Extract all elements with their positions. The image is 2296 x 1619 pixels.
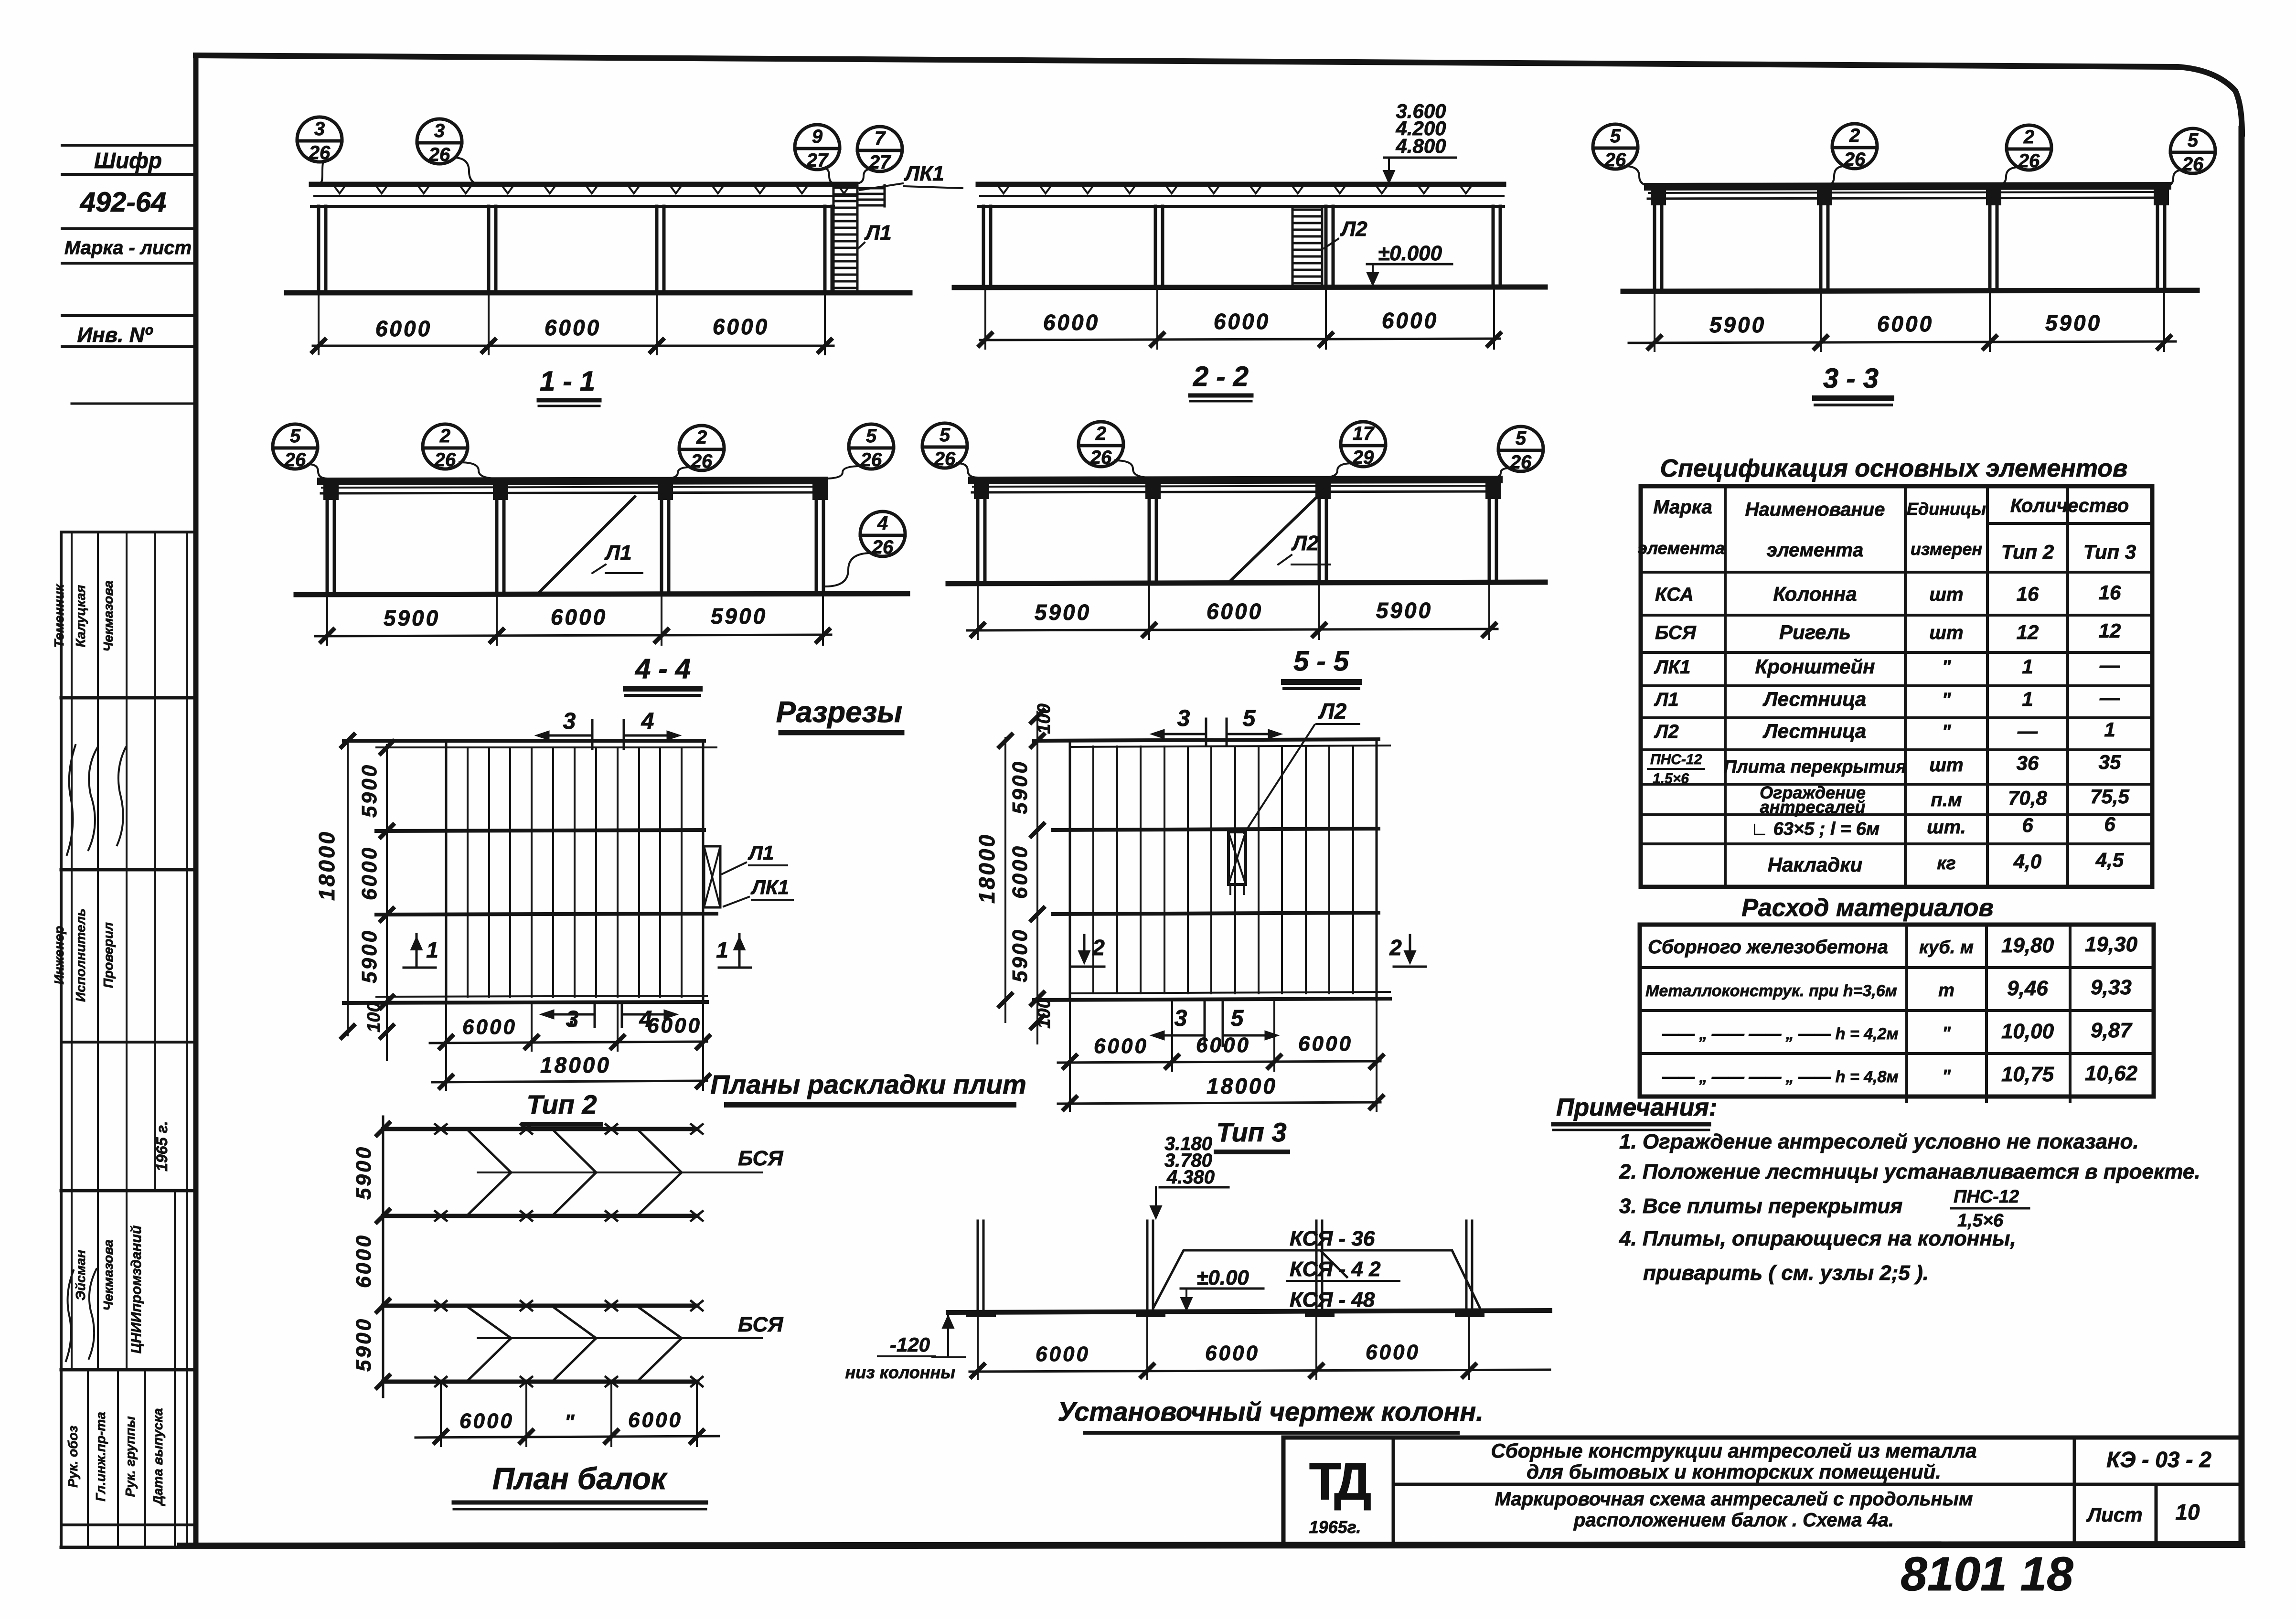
- svg-text:10,62: 10,62: [2085, 1062, 2138, 1085]
- svg-text:кг: кг: [1937, 853, 1956, 873]
- svg-text:Спецификация основных элемен: Спецификация основных элементов: [1660, 455, 2128, 482]
- svg-text:1: 1: [2104, 718, 2115, 741]
- svg-text:18000: 18000: [1207, 1074, 1277, 1098]
- svg-text:6000: 6000: [1214, 309, 1270, 334]
- svg-text:расположением балок . Схема: расположением балок . Схема 4а.: [1573, 1510, 1894, 1531]
- stamp row line: [62, 227, 196, 230]
- svg-text:1: 1: [2022, 655, 2033, 678]
- section 1-1 dimension line: [313, 345, 833, 347]
- section 1-1 slab joint line: [314, 195, 856, 197]
- svg-text:Лист: Лист: [2086, 1503, 2142, 1526]
- stamp signatures group 2: [66, 1270, 74, 1361]
- svg-text:": ": [1942, 689, 1952, 710]
- section 2-2 beam bottom chord: [978, 205, 1504, 208]
- svg-text:5900: 5900: [1008, 928, 1032, 982]
- svg-text:29: 29: [1352, 447, 1374, 468]
- stamp lower table left edge: [60, 532, 63, 1547]
- svg-text:100: 100: [1034, 998, 1054, 1028]
- column install brace line: [1153, 1250, 1480, 1308]
- section 3-3 ground line: [1623, 290, 2197, 291]
- plan Тип 3 inner dim chain: [1036, 712, 1038, 1044]
- section 5-5 column B: [1148, 492, 1151, 583]
- section 5-5 column D: [1488, 492, 1491, 583]
- column install dim chain: [970, 1370, 1550, 1372]
- svg-text:3 - 3: 3 - 3: [1823, 363, 1879, 394]
- plan Тип 3 right edge: [1376, 739, 1378, 1000]
- svg-text:": ": [565, 1410, 575, 1434]
- section 3-3 dimension line: [1629, 341, 2176, 343]
- svg-text:": ": [1942, 657, 1952, 678]
- svg-text:шт: шт: [1929, 755, 1963, 776]
- svg-text:1965 г.: 1965 г.: [153, 1121, 171, 1172]
- svg-text:4. Плиты, опирающиеся на кол: 4. Плиты, опирающиеся на колонны,: [1619, 1227, 2016, 1250]
- svg-text:Теменник: Теменник: [52, 584, 66, 648]
- plan Тип 2 total dim 18000: [432, 1081, 707, 1082]
- svg-text:КСЯ - 48: КСЯ - 48: [1290, 1288, 1375, 1311]
- svg-text:6000: 6000: [1196, 1033, 1250, 1057]
- svg-text:Л2: Л2: [1340, 217, 1367, 241]
- svg-text:Накладки: Накладки: [1768, 853, 1862, 876]
- svg-text:5900: 5900: [352, 1317, 375, 1372]
- section 1-1 callout 3/26: [297, 117, 342, 162]
- svg-text:19,30: 19,30: [2085, 933, 2138, 956]
- svg-text:6000: 6000: [1382, 308, 1438, 333]
- section 3-3 callout 2/26: [1832, 124, 1877, 169]
- svg-text:1: 1: [2022, 688, 2033, 710]
- stamp row line: [62, 144, 196, 147]
- svg-text:5: 5: [1243, 706, 1256, 731]
- section 5-5 callout 2/26: [1079, 422, 1123, 467]
- plan Тип 3 beam row 2: [1053, 829, 1378, 830]
- svg-text:9: 9: [812, 126, 823, 147]
- section 3-3 column C: [1988, 199, 1992, 291]
- svg-text:2: 2: [1849, 125, 1860, 146]
- section 4-4 column C: [660, 493, 663, 594]
- svg-text:1 - 1: 1 - 1: [540, 366, 595, 397]
- section 4-4 callout 2/26 b: [679, 426, 724, 470]
- svg-text:6: 6: [2022, 814, 2033, 836]
- svg-text:100: 100: [364, 1002, 384, 1032]
- svg-text:4: 4: [641, 709, 654, 734]
- section 4-4 callout 5/26: [273, 424, 318, 469]
- section 2-2 dimension line: [980, 339, 1500, 340]
- svg-text:3: 3: [314, 118, 325, 139]
- spec table header split line: [1987, 522, 2152, 525]
- svg-text:3: 3: [1177, 706, 1190, 731]
- svg-text:6000: 6000: [545, 315, 601, 340]
- svg-text:Рук. обоз: Рук. обоз: [65, 1426, 80, 1488]
- svg-text:9,46: 9,46: [2007, 977, 2048, 1000]
- svg-text:КСЯ - 4 2: КСЯ - 4 2: [1290, 1257, 1381, 1281]
- section 5-5 column cap blobs: [974, 483, 989, 499]
- svg-text:8101 18: 8101 18: [1901, 1547, 2073, 1601]
- section 5-5 dimension line: [967, 629, 1497, 630]
- svg-text:5900: 5900: [711, 604, 767, 628]
- plan Тип 2 section 1 marker left: [416, 934, 418, 966]
- title block frame: [1283, 1436, 2242, 1440]
- svg-text:9,87: 9,87: [2091, 1019, 2133, 1042]
- svg-text:Тип 3: Тип 3: [1216, 1117, 1286, 1147]
- svg-text:ПНС-12: ПНС-12: [1954, 1187, 2019, 1207]
- section 5-5 column C: [1318, 492, 1321, 583]
- svg-text:12: 12: [2017, 621, 2039, 643]
- svg-text:Тип 2: Тип 2: [526, 1089, 597, 1119]
- spec table row lines: [1641, 571, 2152, 574]
- svg-text:26: 26: [691, 451, 713, 472]
- plan Тип 3 section 2 marker left: [1083, 935, 1086, 961]
- section 3-3 callout 5/26 b: [2170, 128, 2215, 173]
- svg-text:Металлоконструк. при h=3,6м: Металлоконструк. при h=3,6м: [1645, 982, 1897, 1000]
- section 1-1 column B: [487, 206, 491, 292]
- svg-text:КСА: КСА: [1655, 584, 1694, 605]
- section 2-2 column B: [1154, 206, 1157, 287]
- section 5-5 callout 5/26 b: [1498, 426, 1543, 471]
- svg-text:5900: 5900: [2045, 310, 2102, 335]
- section 3-3 beam: [1648, 186, 2168, 187]
- svg-text:Расход материалов: Расход материалов: [1741, 894, 1994, 922]
- beam plan chord line: [383, 1127, 697, 1131]
- svg-text:35: 35: [2099, 751, 2121, 773]
- svg-text:—: —: [2099, 686, 2120, 709]
- materials table verticals: [1905, 926, 1908, 1101]
- svg-text:низ колонны: низ колонны: [845, 1363, 956, 1382]
- sheet frame right border: [2239, 129, 2245, 1544]
- svg-text:5: 5: [1516, 428, 1527, 449]
- spec table verticals: [1724, 486, 1727, 887]
- svg-text:ЛК1: ЛК1: [904, 162, 944, 185]
- section 4-4 column B: [495, 493, 499, 594]
- section 3-3 column cap blobs: [1651, 189, 1666, 205]
- plan Тип 3 slab outline bottom: [1070, 992, 1390, 993]
- svg-text:элемента: элемента: [1767, 540, 1863, 561]
- svg-text:План балок: План балок: [492, 1461, 668, 1496]
- svg-text:3. Все плиты перекрытия: 3. Все плиты перекрытия: [1619, 1194, 1902, 1218]
- section 2-2 slab joint line: [980, 195, 1504, 197]
- svg-text:6000: 6000: [1298, 1032, 1353, 1055]
- section 4-4 callout 4/26: [860, 511, 905, 556]
- stamp row line: [62, 314, 196, 317]
- stamp lower table horizontals: [61, 531, 196, 533]
- svg-text:Тип 3: Тип 3: [2083, 541, 2136, 563]
- plan Тип 2 right edge: [702, 741, 705, 1003]
- svg-text:5: 5: [2188, 130, 2199, 151]
- plan Тип 2 left edge: [445, 741, 448, 1003]
- svg-text:4: 4: [877, 513, 888, 534]
- svg-text:2: 2: [1095, 423, 1106, 444]
- svg-text:ТД: ТД: [1309, 1452, 1371, 1511]
- plan Тип 3 beam row 3: [1053, 913, 1378, 914]
- svg-text:6000: 6000: [551, 605, 607, 629]
- section 4-4 beam: [321, 480, 824, 481]
- svg-text:БСЯ: БСЯ: [1655, 622, 1697, 643]
- section 1-1 callout 7/27: [857, 127, 902, 171]
- svg-text:6000: 6000: [1366, 1341, 1420, 1364]
- svg-text:Тип 2: Тип 2: [2001, 541, 2054, 563]
- plan Тип 3 total dim 18000: [1058, 1102, 1380, 1104]
- svg-text:шт: шт: [1929, 622, 1963, 643]
- svg-text:6000: 6000: [1205, 1342, 1260, 1365]
- svg-text:Примечания:: Примечания:: [1556, 1094, 1717, 1121]
- svg-text:шт.: шт.: [1927, 817, 1966, 838]
- svg-text:5900: 5900: [352, 1145, 375, 1200]
- plan Тип 3 ladder Л2 symbol: [1228, 832, 1246, 884]
- svg-text:Наименование: Наименование: [1745, 499, 1885, 520]
- svg-text:Сборного железобетона: Сборного железобетона: [1648, 937, 1888, 958]
- beam plan ridge line: [478, 1337, 762, 1339]
- section 3-3 column D: [2156, 199, 2159, 291]
- svg-text:26: 26: [1510, 452, 1532, 473]
- section 2-2 column A: [982, 206, 985, 287]
- svg-text:": ": [1942, 721, 1952, 742]
- svg-text:Л1: Л1: [1654, 689, 1679, 710]
- svg-text:Лестница: Лестница: [1762, 720, 1866, 742]
- svg-text:Сборные конструкции антресол: Сборные конструкции антресолей из металл…: [1491, 1439, 1976, 1462]
- svg-text:Л1: Л1: [748, 841, 774, 864]
- plan Тип 3 outer dim 18000 line: [1004, 738, 1006, 1022]
- beam plan ridge line: [478, 1172, 762, 1173]
- plan Тип 3 section 2 marker right: [1409, 935, 1411, 961]
- svg-text:16: 16: [2017, 583, 2039, 605]
- svg-text:Проверил: Проверил: [101, 922, 116, 988]
- stamp lower table bottom line: [61, 1546, 196, 1549]
- section 5-5 callout 5/26: [922, 423, 967, 468]
- svg-text:10: 10: [2175, 1500, 2200, 1524]
- svg-text:Эйсман: Эйсман: [73, 1250, 88, 1300]
- section 5-5 callout 17/29: [1341, 422, 1386, 467]
- plan Тип 2 slab outline bottom: [376, 996, 707, 997]
- svg-text:Марка - лист: Марка - лист: [64, 237, 192, 258]
- section 3-3 column B: [1819, 199, 1823, 291]
- plan Тип 3 plate joints: [1092, 746, 1094, 993]
- svg-text:70,8: 70,8: [2008, 787, 2047, 809]
- svg-text:18000: 18000: [540, 1053, 611, 1077]
- svg-text:3: 3: [1175, 1006, 1187, 1031]
- column install column: [977, 1221, 979, 1311]
- svg-text:1: 1: [426, 937, 438, 962]
- svg-text:Инженер: Инженер: [52, 926, 66, 985]
- svg-text:приварить ( см. узлы 2;5 ).: приварить ( см. узлы 2;5 ).: [1643, 1261, 1929, 1285]
- section 2-2 slab joints: [998, 186, 1471, 193]
- svg-text:2: 2: [439, 426, 450, 447]
- section 2-2 column C: [1324, 206, 1328, 287]
- column install column: [1465, 1221, 1468, 1311]
- section 1-1 column D: [823, 206, 827, 292]
- stamp row line: [62, 345, 196, 348]
- svg-text:Л1: Л1: [604, 541, 632, 565]
- svg-text:5900: 5900: [358, 763, 381, 818]
- svg-text:": ": [567, 1017, 578, 1040]
- svg-text:6: 6: [2104, 813, 2115, 835]
- svg-text:Ригель: Ригель: [1779, 621, 1851, 643]
- materials table outer frame: [1640, 925, 2154, 1097]
- svg-text:Дата выпуска: Дата выпуска: [150, 1408, 165, 1506]
- svg-text:3: 3: [434, 120, 445, 141]
- svg-text:Рук. группы: Рук. группы: [123, 1416, 138, 1497]
- beam plan left dim line: [382, 1117, 384, 1397]
- section 2-2 ground line: [954, 287, 1545, 288]
- svg-text:Колонна: Колонна: [1773, 583, 1857, 605]
- svg-text:7: 7: [875, 128, 886, 149]
- spec table outer frame: [1641, 486, 2152, 887]
- svg-text:6000: 6000: [358, 846, 381, 900]
- section 4-4 dimension line: [315, 635, 831, 636]
- svg-text:2: 2: [2023, 127, 2034, 148]
- section 4-4 ground line: [296, 594, 908, 595]
- beam plan chevrons: [469, 1308, 511, 1338]
- svg-text:17: 17: [1353, 423, 1375, 444]
- plan Тип 2 section 1 marker right: [738, 934, 741, 966]
- svg-text:для бытовых и конторских п: для бытовых и конторских помещений.: [1527, 1460, 1941, 1483]
- plan Тип 2 plate joints: [467, 747, 469, 997]
- svg-text:Чекмазова: Чекмазова: [101, 1239, 116, 1310]
- section 1-1 column C: [655, 206, 659, 292]
- section 1-1 beam top chord: [311, 182, 856, 187]
- svg-text:Установочный чертеж колонн.: Установочный чертеж колонн.: [1057, 1396, 1484, 1427]
- svg-text:±0.00: ±0.00: [1196, 1266, 1249, 1289]
- section 1-1 column A: [317, 206, 320, 292]
- svg-text:2: 2: [696, 427, 707, 448]
- section 5-5 ground line: [948, 582, 1545, 584]
- svg-text:6000: 6000: [1207, 599, 1263, 624]
- svg-text:6000: 6000: [713, 314, 769, 339]
- stamp lower table verticals: [71, 532, 73, 1370]
- svg-text:9,33: 9,33: [2091, 976, 2132, 999]
- section 3-3 column A: [1653, 199, 1656, 291]
- plan Тип 2 beam row 3: [376, 914, 716, 915]
- svg-text:6000: 6000: [1043, 310, 1100, 335]
- svg-text:КЭ - 03 - 2: КЭ - 03 - 2: [2106, 1447, 2211, 1472]
- svg-text:26: 26: [1090, 447, 1112, 468]
- section 1-1 callout 9/27: [795, 125, 840, 170]
- svg-text:ПНС-12: ПНС-12: [1650, 752, 1702, 767]
- svg-text:∟ 63×5 ; l = 6м: ∟ 63×5 ; l = 6м: [1751, 819, 1880, 839]
- plan Тип 2 bracket ЛК1 symbol: [704, 846, 720, 907]
- svg-text:2: 2: [1092, 935, 1105, 960]
- section 1-1 slab joints: [334, 186, 849, 193]
- svg-text:п.м: п.м: [1931, 789, 1962, 810]
- svg-text:т: т: [1938, 980, 1954, 1001]
- svg-text:—: —: [2017, 720, 2038, 742]
- svg-text:36: 36: [2017, 752, 2039, 774]
- section 2-2 column D: [1492, 206, 1495, 287]
- column install ground line: [948, 1310, 1550, 1312]
- svg-text:26: 26: [860, 449, 882, 470]
- plan Тип 2 bottom dim chain: [430, 1042, 707, 1043]
- svg-text:5900: 5900: [1709, 312, 1766, 337]
- svg-text:Кронштейн: Кронштейн: [1755, 655, 1875, 678]
- sheet frame top border: [196, 55, 2242, 134]
- svg-text:КСЯ - 36: КСЯ - 36: [1290, 1227, 1375, 1250]
- section 1-1 callout 3/26 b: [417, 119, 462, 164]
- svg-text:3: 3: [563, 709, 576, 734]
- svg-text:2 - 2: 2 - 2: [1193, 361, 1249, 392]
- svg-text:26: 26: [872, 537, 894, 558]
- beam plan chevrons: [469, 1131, 511, 1172]
- svg-text:Разрезы: Разрезы: [776, 696, 902, 729]
- svg-text:": ": [1942, 1023, 1951, 1044]
- section 5-5 beam: [972, 479, 1499, 480]
- svg-text:Чекмазова: Чекмазова: [101, 580, 116, 651]
- svg-text:18000: 18000: [974, 833, 999, 904]
- svg-text:ЛК1: ЛК1: [1654, 657, 1690, 678]
- svg-text:6000: 6000: [1008, 844, 1032, 899]
- svg-text:6000: 6000: [1094, 1034, 1148, 1058]
- svg-text:Шифр: Шифр: [94, 148, 162, 173]
- svg-text:1. Ограждение антресолей усл: 1. Ограждение антресолей условно не пока…: [1619, 1130, 2139, 1153]
- sheet frame left border: [193, 55, 199, 1545]
- svg-text:26: 26: [428, 144, 450, 165]
- svg-text:БСЯ: БСЯ: [738, 1147, 783, 1170]
- svg-text:Инв. Nº: Инв. Nº: [77, 323, 153, 347]
- svg-text:шт: шт: [1929, 584, 1963, 605]
- plan Тип 2 inner dim chain: [386, 745, 388, 1060]
- svg-text:4.380: 4.380: [1166, 1167, 1215, 1188]
- svg-text:16: 16: [2099, 581, 2121, 604]
- svg-text:ЛК1: ЛК1: [750, 876, 789, 898]
- section 1-1 bracket ЛК1 block: [856, 185, 859, 206]
- svg-text:4,5: 4,5: [2095, 849, 2124, 871]
- svg-text:Исполнитель: Исполнитель: [73, 908, 88, 1002]
- svg-text:Л1: Л1: [864, 221, 892, 245]
- svg-text:26: 26: [434, 449, 456, 470]
- svg-text:6000: 6000: [459, 1409, 514, 1433]
- materials table row lines: [1640, 966, 2154, 969]
- svg-text:1: 1: [716, 937, 728, 962]
- section 1-1 ladder Л1 hatch: [833, 184, 835, 292]
- svg-text:Плита перекрытия: Плита перекрытия: [1724, 757, 1907, 777]
- beam plan chord line: [383, 1304, 697, 1308]
- svg-text:2: 2: [1389, 935, 1402, 960]
- svg-text:5900: 5900: [358, 929, 381, 983]
- section 2-2 ladder Л2 hatch: [1292, 206, 1294, 287]
- plan Тип 3 bottom dim chain: [1058, 1061, 1380, 1063]
- section 5-5 ladder Л2 diagonal: [1229, 491, 1323, 582]
- svg-text:6000: 6000: [462, 1015, 517, 1039]
- svg-text:10,00: 10,00: [2001, 1020, 2054, 1043]
- stamp row line: [62, 173, 196, 176]
- svg-text:5: 5: [1231, 1006, 1244, 1031]
- svg-text:—— „ —— —— „ —— h = 4,8м: —— „ —— —— „ —— h = 4,8м: [1662, 1068, 1899, 1086]
- plan Тип 2 outer dim 18000 line: [347, 739, 349, 1035]
- section 5-5 column A: [976, 492, 980, 583]
- section 3-3 callout 5/26: [1593, 124, 1638, 169]
- section 1-1 ground line: [287, 290, 910, 296]
- svg-text:—: —: [2099, 654, 2120, 676]
- svg-text:5: 5: [866, 426, 877, 447]
- svg-text:26: 26: [934, 448, 956, 469]
- sheet frame bottom border: [181, 1544, 2242, 1546]
- svg-text:100: 100: [1034, 703, 1054, 734]
- plan Тип 3 slab outline top: [1034, 739, 1378, 741]
- column install column: [1315, 1221, 1318, 1311]
- svg-text:Единицы: Единицы: [1907, 499, 1986, 519]
- svg-text:5900: 5900: [1035, 600, 1091, 625]
- section 4-4 column A: [326, 493, 329, 594]
- svg-text:Л2: Л2: [1654, 721, 1679, 742]
- svg-text:5900: 5900: [1376, 598, 1432, 623]
- svg-text:6000: 6000: [1036, 1342, 1090, 1366]
- svg-text:75,5: 75,5: [2090, 785, 2129, 808]
- svg-text:5900: 5900: [1008, 760, 1032, 814]
- svg-text:-120: -120: [890, 1333, 930, 1356]
- svg-text:Л2: Л2: [1318, 699, 1347, 724]
- section 3-3 callout 2/26 b: [2007, 125, 2051, 170]
- svg-text:1,5×6: 1,5×6: [1653, 771, 1689, 787]
- svg-text:4,0: 4,0: [2013, 850, 2041, 873]
- svg-text:26: 26: [2182, 154, 2204, 175]
- svg-text:6000: 6000: [375, 316, 432, 341]
- svg-text:измерен: измерен: [1911, 539, 1983, 559]
